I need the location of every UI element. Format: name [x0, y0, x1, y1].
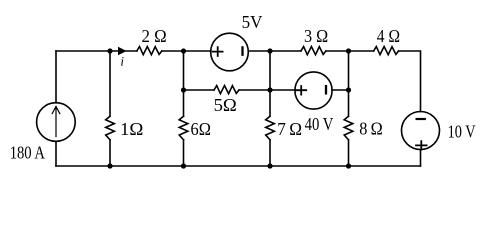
5V plus symbol — [213, 47, 223, 56]
junction dot top 6-ohm — [181, 48, 186, 53]
180A arrow inside — [52, 107, 60, 137]
svg-text:8 Ω: 8 Ω — [359, 119, 383, 139]
resistor 8&#937; zigzag — [344, 116, 353, 140]
current arrow i on top wire — [118, 47, 127, 56]
5V minus symbol (vertical bar) — [241, 47, 243, 54]
middle wire left (6-ohm node to 5-ohm resistor) — [184, 89, 215, 91]
left wire upper segment — [55, 51, 57, 103]
bottom wire — [56, 165, 421, 167]
vertical wire at 6-ohm branch (upper) — [183, 51, 185, 116]
40V minus symbol (vertical bar) — [325, 86, 327, 93]
junction dot top 7-ohm — [267, 48, 272, 53]
resistor 7&#937; zigzag — [266, 116, 275, 140]
10V plus symbol — [416, 141, 427, 149]
junction dot bottom 8-ohm — [346, 163, 351, 168]
vertical wire at 8-ohm branch (lower) — [348, 140, 350, 166]
10V minus symbol — [417, 118, 425, 120]
junction dot top 8-ohm — [346, 48, 351, 53]
svg-text:5V: 5V — [242, 12, 263, 32]
junction dot bottom 6-ohm — [181, 163, 186, 168]
resistor 6&#937; zigzag — [179, 116, 188, 140]
junction dot middle left — [181, 87, 186, 92]
wire 4-ohm to top-right corner and down — [399, 51, 421, 112]
vertical wire at 7-ohm branch (lower) — [269, 140, 271, 166]
vertical wire at 1-ohm branch (upper) — [109, 51, 111, 116]
svg-text:7 Ω: 7 Ω — [277, 119, 302, 139]
junction dot middle right — [346, 87, 351, 92]
svg-text:i: i — [120, 54, 124, 69]
wire 5V source to 3-ohm — [248, 50, 301, 52]
resistor 1&#937; zigzag — [106, 116, 115, 140]
svg-text:6Ω: 6Ω — [191, 119, 211, 139]
svg-text:40 V: 40 V — [305, 114, 334, 134]
wire 3-ohm to 4-ohm — [326, 50, 374, 52]
wire top-left horizontal (top node to 2-ohm) — [56, 50, 137, 52]
wire 40V source to 8-ohm node — [332, 89, 349, 91]
junction dot bottom 1-ohm — [107, 163, 112, 168]
svg-text:3 Ω: 3 Ω — [304, 26, 328, 46]
junction dot bottom 7-ohm — [267, 163, 272, 168]
voltage source 40V (circle) — [295, 72, 332, 109]
wire below 10V to bottom-right corner — [420, 150, 422, 167]
vertical wire at 6-ohm branch (lower) — [183, 140, 185, 166]
voltage source 5V (circle) — [211, 33, 249, 71]
svg-text:1Ω: 1Ω — [120, 119, 143, 139]
resistor 3&#937; zigzag — [301, 47, 326, 55]
resistor 2&#937; zigzag — [137, 47, 162, 55]
svg-text:5Ω: 5Ω — [214, 95, 237, 115]
40V plus symbol — [296, 86, 306, 95]
current source 180A (circle) — [37, 103, 76, 142]
resistor 5&#937; zigzag — [214, 86, 239, 94]
resistor 4&#937; zigzag — [374, 47, 399, 55]
vertical wire at 1-ohm branch (lower) — [109, 140, 111, 166]
voltage source 10V (circle) — [402, 112, 440, 150]
svg-text:10 V: 10 V — [448, 122, 476, 142]
wire 2-ohm to 5V source — [162, 50, 211, 52]
svg-text:180 A: 180 A — [10, 142, 46, 162]
svg-text:4 Ω: 4 Ω — [377, 26, 400, 46]
wire 5-ohm to 40V source — [239, 89, 295, 91]
vertical wire at 7-ohm branch (upper) — [269, 51, 271, 116]
junction dot top 1-ohm — [107, 48, 112, 53]
vertical wire at 8-ohm branch (upper) — [348, 51, 350, 116]
junction dot middle center — [267, 87, 272, 92]
left wire lower segment — [55, 141, 57, 166]
svg-text:2 Ω: 2 Ω — [142, 26, 167, 46]
